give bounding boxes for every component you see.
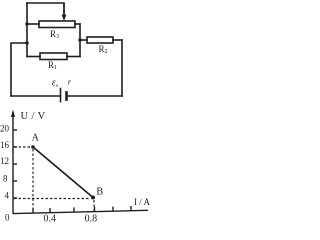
svg-text:0.8: 0.8 bbox=[85, 213, 98, 224]
svg-text:r: r bbox=[68, 77, 72, 87]
svg-text:R1: R1 bbox=[48, 60, 57, 71]
svg-text:B: B bbox=[96, 186, 103, 197]
svg-text:U / V: U / V bbox=[21, 111, 46, 122]
svg-text:0: 0 bbox=[5, 213, 10, 223]
svg-text:ε,: ε, bbox=[52, 78, 58, 89]
svg-text:20: 20 bbox=[0, 124, 10, 134]
svg-text:R3: R3 bbox=[50, 29, 59, 40]
svg-text:8: 8 bbox=[3, 174, 8, 184]
svg-text:0.4: 0.4 bbox=[44, 213, 57, 224]
svg-text:12: 12 bbox=[0, 156, 9, 166]
svg-text:16: 16 bbox=[0, 140, 10, 150]
svg-text:I / A: I / A bbox=[134, 197, 151, 207]
svg-text:4: 4 bbox=[5, 191, 10, 201]
svg-text:A: A bbox=[32, 132, 40, 143]
svg-text:R2: R2 bbox=[99, 44, 108, 55]
